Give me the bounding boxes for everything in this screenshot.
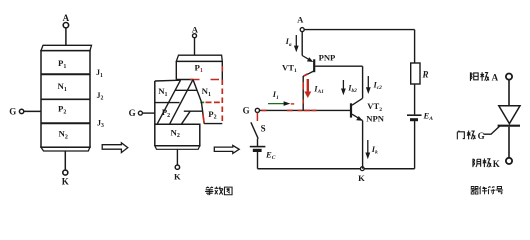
caption 等效图	[205, 187, 213, 195]
wire G lead down (red)	[256, 113, 258, 121]
wire switch to EC	[257, 139, 259, 146]
terminal G circle (middle)	[138, 111, 142, 115]
terminal K circle (left structure)	[63, 170, 68, 175]
red overlay on diagonal D	[203, 114, 204, 124]
svg-text:K: K	[62, 176, 69, 186]
diagonal D (right P2 left edge)	[201, 102, 204, 124]
battery EA long plate	[407, 114, 422, 116]
red dashes on P1 right edge	[221, 66, 223, 72]
terminal A circle (left structure)	[63, 23, 68, 28]
svg-text:Ic2: Ic2	[373, 81, 383, 92]
right slab red dashed right edge	[221, 80, 223, 124]
anode circle	[506, 74, 512, 80]
band lower diagonal	[181, 111, 190, 124]
P1 slab box	[176, 61, 222, 79]
svg-text:NPN: NPN	[366, 114, 384, 124]
current Ic2 arrow	[367, 76, 369, 88]
red dash after I1 arrow	[291, 103, 294, 105]
transistor VT2 base bar	[350, 103, 352, 117]
svg-text:P1: P1	[195, 62, 203, 74]
left slab left edge	[154, 81, 156, 146]
red dashes on collector wire	[302, 82, 304, 104]
red dashes on gate rail	[262, 109, 317, 111]
junction J3 line	[41, 122, 90, 124]
svg-text:Ia: Ia	[285, 37, 292, 48]
wire G lead to body	[24, 110, 41, 112]
diagonal D1 (left slab right edge)	[157, 80, 181, 124]
wire triangle to cathode circle	[508, 127, 510, 158]
svg-text:I1: I1	[272, 90, 279, 101]
N1/P2 boundary right slab: red dashes	[206, 101, 220, 103]
top cap of P1 slab	[176, 55, 222, 61]
svg-text:N1: N1	[158, 86, 167, 98]
svg-text:N2: N2	[59, 129, 68, 141]
cathode label 阴极 K	[473, 159, 481, 167]
current Ib2 arrow	[342, 80, 344, 90]
wire bottom rail	[258, 168, 415, 170]
bottom cap (3D face)	[41, 147, 90, 151]
transistor VT1 collector diagonal	[303, 71, 314, 76]
terminal A circle (middle)	[193, 34, 197, 38]
terminal K circle (middle)	[175, 165, 179, 169]
N2 box (middle)	[155, 124, 200, 146]
bottom cap (middle)	[155, 146, 200, 150]
current Ia arrow	[295, 35, 297, 47]
battery EA short plate	[410, 118, 418, 121]
battery EC long plate	[250, 146, 266, 148]
svg-text:PNP: PNP	[319, 52, 336, 62]
svg-text:A: A	[63, 13, 70, 23]
svg-text:G: G	[9, 107, 16, 117]
switch S blade	[251, 122, 258, 138]
svg-text:S: S	[261, 123, 266, 133]
svg-text:G: G	[243, 106, 250, 116]
node K circle (circuit)	[360, 167, 364, 171]
junction J1 line	[41, 73, 90, 75]
band step line upper	[175, 89, 197, 91]
svg-text:P2: P2	[208, 109, 216, 121]
anode label 阳极 A	[470, 72, 478, 80]
top cap (3D face)	[41, 45, 92, 50]
svg-text:A: A	[297, 14, 304, 24]
svg-text:K: K	[358, 173, 365, 183]
svg-text:EC: EC	[265, 150, 276, 162]
node A circle (circuit)	[300, 28, 304, 32]
svg-text:K: K	[174, 172, 181, 182]
wire R to EA	[414, 84, 416, 114]
P1 bottom edge black part	[176, 79, 193, 81]
wire VT1 base to VT2 collector branch	[315, 66, 362, 98]
wire A lead down to cap	[65, 28, 67, 45]
N1/P2 boundary (left slab)	[155, 102, 180, 104]
svg-text:P2: P2	[162, 107, 170, 119]
right slab bottom edge	[204, 123, 222, 125]
transistor VT2 collector diagonal	[352, 98, 363, 105]
diagonal D2 (band right boundary)	[170, 80, 194, 125]
svg-text:Ib2: Ib2	[347, 84, 357, 95]
equivalence arrow 2	[214, 145, 239, 153]
battery EC short plate	[253, 149, 262, 152]
wire gate rail G to VT2 base	[260, 109, 352, 111]
gate lead	[484, 126, 500, 134]
terminal K lead (middle)	[176, 149, 178, 164]
current IA1 thick red arrow	[307, 79, 309, 93]
diagonal C (right N1 left edge)	[193, 80, 201, 102]
junction J2 line	[41, 98, 90, 100]
cathode circle	[506, 158, 512, 164]
gate label 门极 G	[457, 131, 464, 140]
wire EC to bottom rail	[257, 152, 259, 169]
red overlay VT1 collector diagonal	[303, 74, 307, 76]
svg-text:IA1: IA1	[313, 85, 324, 96]
caption 器件符号	[471, 187, 479, 195]
band step line lower	[184, 110, 203, 112]
svg-text:N1: N1	[202, 86, 211, 98]
wire VT2 emitter down to K	[362, 121, 364, 169]
svg-text:VT1: VT1	[282, 63, 297, 75]
node G circle (circuit)	[255, 108, 259, 112]
svg-text:R: R	[422, 69, 429, 79]
wire EA to bottom rail	[414, 121, 416, 169]
svg-text:A: A	[492, 73, 499, 83]
equivalence arrow 1	[102, 143, 128, 153]
P1 bottom edge red dashes	[190, 79, 219, 81]
svg-text:VT2: VT2	[367, 101, 382, 113]
svg-text:G: G	[129, 108, 136, 118]
current Ik arrow	[367, 140, 369, 154]
svg-text:J3: J3	[97, 119, 104, 130]
svg-text:G: G	[478, 131, 485, 141]
svg-text:Ik: Ik	[371, 145, 378, 156]
cathode bar	[498, 125, 520, 127]
transistor VT1 base bar	[313, 59, 315, 72]
transistor VT2 emitter diagonal with arrowhead	[352, 114, 363, 120]
current I1 arrow	[268, 103, 285, 105]
terminal G circle (left structure)	[19, 109, 23, 113]
transistor VT1 emitter diagonal with arrowhead	[302, 56, 310, 61]
svg-text:J2: J2	[97, 91, 104, 102]
left slab top edge	[155, 79, 181, 82]
svg-text:J1: J1	[96, 68, 103, 79]
wire A lead down (middle)	[194, 38, 196, 55]
wire A lead down to VT1 emitter	[301, 32, 303, 56]
terminal K lead	[64, 151, 66, 169]
svg-text:EA: EA	[423, 111, 434, 123]
svg-text:P1: P1	[58, 58, 66, 70]
body box outline	[41, 51, 90, 148]
resistor R	[411, 63, 420, 84]
svg-text:K: K	[493, 159, 500, 169]
wire VT1 collector down to gate rail	[302, 76, 304, 110]
thyristor triangle	[499, 106, 520, 124]
N1/P2 boundary right slab: green segment	[200, 101, 204, 103]
wire top rail A to right branch	[304, 29, 414, 31]
wire right branch down to R	[414, 30, 416, 63]
wire anode to triangle	[508, 80, 510, 106]
svg-text:P2: P2	[58, 104, 66, 116]
wire G lead (middle)	[143, 112, 155, 114]
svg-text:N2: N2	[171, 127, 180, 139]
svg-text:N1: N1	[58, 81, 67, 93]
